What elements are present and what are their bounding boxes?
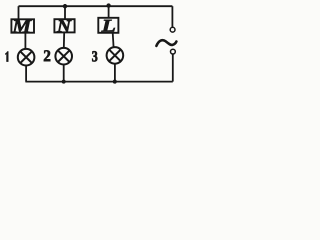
node junction L top [107, 4, 111, 8]
source bottom terminal [171, 49, 176, 54]
wire M to lamp 1 [24, 33, 26, 49]
label 2 [44, 50, 50, 61]
label 3 [92, 51, 97, 61]
wire lamp 3 to bottom bus [114, 64, 116, 82]
source top terminal [170, 27, 175, 32]
wire N to lamp 2 [63, 32, 65, 48]
box N [54, 19, 74, 32]
wire M top stub [18, 6, 20, 19]
node junction lamp3 bottom [113, 80, 117, 84]
source tilde symbol [156, 40, 176, 46]
wire N top stub [64, 6, 66, 19]
box M [11, 19, 34, 32]
node junction N top [63, 4, 67, 8]
wire right side to source top terminal [171, 6, 173, 27]
lamp 2 [55, 48, 72, 65]
label 1 [5, 51, 8, 61]
wire bottom bus [25, 81, 172, 83]
lamp 1 [18, 49, 35, 66]
node junction lamp2 bottom [62, 80, 65, 83]
box L [98, 18, 118, 33]
wire L to lamp 3 [112, 33, 115, 48]
wire right side from source bottom terminal [172, 54, 174, 82]
wire lamp 1 to bottom bus [25, 66, 27, 82]
wire L top stub [108, 6, 110, 18]
lamp 3 [107, 47, 124, 64]
wire lamp 2 to bottom bus [63, 65, 65, 82]
wire top bus [19, 5, 173, 7]
